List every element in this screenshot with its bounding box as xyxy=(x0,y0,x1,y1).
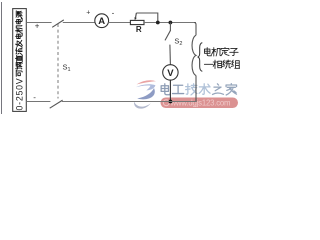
wire: ammeter to rheostat R xyxy=(108,22,130,24)
rheostat wiper arrow xyxy=(135,13,138,18)
wire: voltmeter down to bottom rail xyxy=(169,80,171,101)
junction: voltmeter bottom xyxy=(169,100,173,104)
wire: bottom rail from S1 to winding xyxy=(62,101,196,103)
svg-text:-: - xyxy=(112,9,115,18)
svg-text:www.dgjs123.com: www.dgjs123.com xyxy=(170,99,231,108)
switch S1 gang dashed link xyxy=(57,24,59,99)
voltmeter V xyxy=(163,65,178,80)
wire: bottom rail from box to switch S1 lower pole xyxy=(26,101,50,103)
rheostat R body xyxy=(130,20,144,24)
wire: winding bottom down to bottom rail xyxy=(195,76,197,103)
junction: voltmeter branch top xyxy=(169,21,173,25)
label: one phase winding xyxy=(204,60,239,69)
svg-text:+: + xyxy=(35,21,40,30)
svg-text:0-250V: 0-250V xyxy=(15,78,25,111)
svg-text:+: + xyxy=(86,10,90,17)
watermark text dian-gong-ji-shu-zhi-jia xyxy=(161,84,236,95)
switch S1 top pole blade xyxy=(52,20,64,27)
wire: right corner down to winding xyxy=(194,23,196,36)
ammeter A xyxy=(95,14,109,28)
label: motor stator xyxy=(204,47,238,56)
wire: S2 to voltmeter xyxy=(169,45,172,65)
svg-text:V: V xyxy=(167,68,174,79)
wire: R to right corner xyxy=(144,22,196,24)
svg-text:-: - xyxy=(33,93,36,102)
junction: bypass joins main wire xyxy=(156,21,160,25)
wire: top from box to switch S1 xyxy=(26,22,51,24)
power source label 0-250V adjustable DC generator supply (vertical) xyxy=(15,11,25,111)
wire: top from S1 to ammeter xyxy=(63,22,95,24)
switch S2 blade xyxy=(165,30,171,40)
watermark url band xyxy=(161,98,239,109)
svg-text:R: R xyxy=(136,25,142,34)
brace for winding label xyxy=(198,43,203,72)
switch S1 lower pole blade xyxy=(50,100,63,108)
wire: wiper bypass loop xyxy=(136,13,158,23)
scan artifact left edge xyxy=(1,2,2,114)
watermark logo xyxy=(134,80,156,108)
svg-text:A: A xyxy=(98,16,105,27)
voltmeter branch: junction to S2 xyxy=(169,23,171,31)
power source box xyxy=(13,9,27,112)
stator winding coil xyxy=(192,35,196,75)
